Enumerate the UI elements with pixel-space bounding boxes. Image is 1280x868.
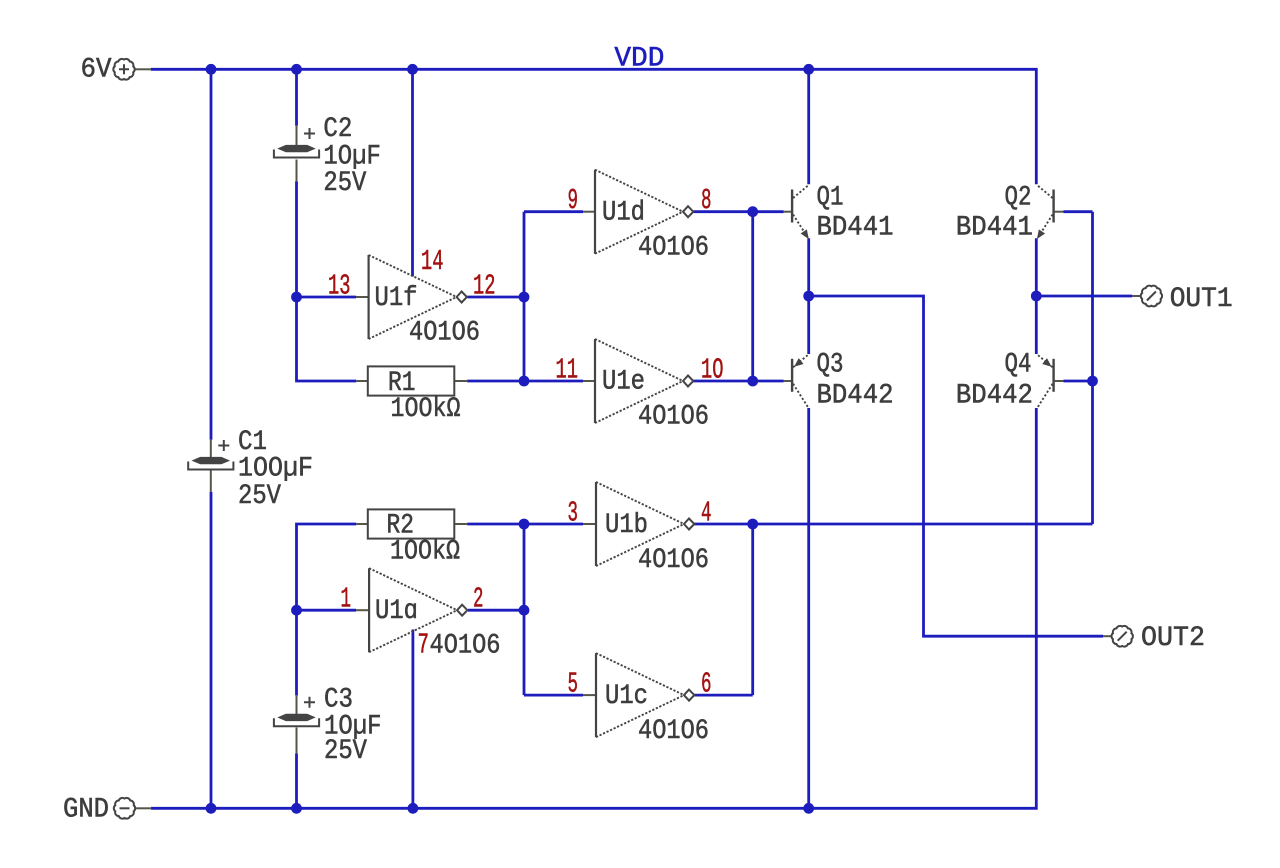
svg-text:1OOµF: 1OOµF	[238, 454, 313, 485]
svg-text:9: 9	[568, 184, 579, 217]
svg-text:Q2: Q2	[1005, 183, 1032, 214]
svg-text:11: 11	[556, 354, 579, 387]
svg-text:4O1O6: 4O1O6	[638, 233, 709, 264]
svg-text:6V: 6V	[81, 55, 112, 86]
svg-text:Q3: Q3	[817, 350, 844, 381]
svg-text:1O: 1O	[701, 354, 724, 387]
svg-text:4O1O6: 4O1O6	[638, 402, 709, 433]
svg-text:4O1O6: 4O1O6	[430, 631, 501, 662]
svg-text:1OOkΩ: 1OOkΩ	[390, 537, 460, 568]
svg-text:6: 6	[701, 668, 712, 701]
svg-text:BD441: BD441	[817, 213, 894, 244]
svg-text:BD442: BD442	[956, 381, 1033, 412]
svg-text:OUT1: OUT1	[1170, 284, 1233, 315]
svg-text:U1c: U1c	[605, 681, 648, 712]
svg-text:U1b: U1b	[605, 510, 648, 541]
svg-text:4O1O6: 4O1O6	[638, 716, 709, 747]
svg-text:12: 12	[473, 270, 496, 303]
svg-text:13: 13	[328, 270, 351, 303]
svg-text:25V: 25V	[324, 736, 367, 767]
svg-text:OUT2: OUT2	[1141, 623, 1205, 654]
svg-text:1: 1	[341, 583, 352, 616]
svg-text:U1f: U1f	[375, 283, 418, 314]
svg-text:Q4: Q4	[1005, 350, 1032, 381]
svg-text:U1ɑ: U1ɑ	[375, 596, 418, 627]
svg-text:4O1O6: 4O1O6	[638, 545, 709, 576]
svg-text:14: 14	[421, 245, 444, 278]
svg-text:U1e: U1e	[602, 367, 645, 398]
svg-text:5: 5	[568, 668, 579, 701]
svg-text:Q1: Q1	[817, 183, 844, 214]
svg-text:GND: GND	[63, 795, 109, 826]
svg-text:7: 7	[418, 629, 430, 662]
svg-text:25V: 25V	[238, 481, 281, 512]
svg-text:BD441: BD441	[956, 213, 1033, 244]
svg-text:4: 4	[701, 497, 712, 530]
svg-text:C2: C2	[323, 114, 352, 145]
svg-text:U1d: U1d	[602, 198, 645, 229]
svg-text:3: 3	[568, 497, 579, 530]
svg-text:2: 2	[473, 583, 484, 616]
svg-text:25V: 25V	[323, 168, 366, 199]
svg-text:1OOkΩ: 1OOkΩ	[391, 394, 461, 425]
svg-text:BD442: BD442	[817, 381, 894, 412]
svg-text:VDD: VDD	[614, 44, 664, 75]
svg-text:4O1O6: 4O1O6	[409, 318, 480, 349]
svg-text:8: 8	[701, 184, 712, 217]
